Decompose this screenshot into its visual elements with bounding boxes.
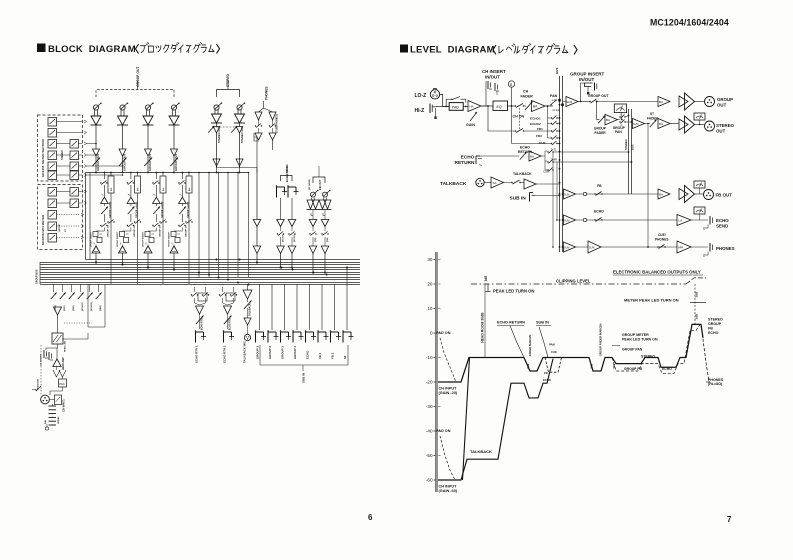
- svg-text:ECHO RTN: ECHO RTN: [230, 318, 232, 330]
- echo return 2 pick switches: [222, 287, 224, 292]
- svg-text:MC2404 METER SECTION: MC2404 METER SECTION: [41, 139, 45, 177]
- echo send jack: [276, 187, 278, 198]
- group meter: [614, 104, 626, 113]
- svg-text:GROUP: GROUP: [717, 97, 733, 102]
- svg-text:TALKBACK: TALKBACK: [440, 181, 467, 187]
- svg-text:SEND: SEND: [716, 224, 728, 229]
- svg-text:ECHO2: ECHO2: [530, 122, 541, 126]
- svg-text:CUE: CUE: [551, 350, 557, 354]
- svg-text:GROUP INSERT: GROUP INSERT: [169, 231, 171, 247]
- meter box1 col1 row6 meter cell: [48, 171, 57, 180]
- svg-text:SUB IN: SUB IN: [536, 321, 549, 325]
- pad bypass switch: [446, 99, 451, 106]
- phones dashed drop: [701, 324, 709, 382]
- svg-text:FB: FB: [708, 327, 713, 331]
- fb post amp + power amp: [658, 189, 670, 199]
- svg-text:ELECTRONIC BALANCED OUTPUTS ON: ELECTRONIC BALANCED OUTPUTS ONLY: [613, 270, 701, 275]
- talkback post amp: [524, 179, 536, 189]
- group 4 wire to bus: [173, 245, 175, 247]
- fb out balanced amp: [323, 198, 325, 201]
- svg-text:UNBAL: UNBAL: [57, 416, 60, 424]
- channel pad switches: [53, 370, 60, 377]
- stereo bus pair: [628, 109, 630, 194]
- group out XLR: [695, 101, 705, 103]
- svg-text:BA: BA: [659, 100, 663, 104]
- ch on gang dashed link: [519, 108, 521, 129]
- svg-text:PAD: PAD: [59, 382, 64, 386]
- svg-text:PHONES: PHONES: [716, 246, 735, 251]
- svg-text:R: R: [621, 125, 623, 128]
- svg-text:-20: -20: [426, 380, 433, 385]
- fb meter: [694, 181, 705, 188]
- fb wire to bus: [324, 254, 326, 273]
- head amp HA: [468, 101, 481, 112]
- group 3 insert jacks cluster: [155, 228, 157, 232]
- pre-EQ tap to FB1 row: [488, 106, 516, 131]
- ch on switch: [515, 105, 516, 106]
- talkback amp: [485, 182, 492, 184]
- svg-text:-10: -10: [426, 355, 433, 360]
- svg-text:L: L: [621, 114, 623, 117]
- echo return 2 sum amp: [223, 298, 228, 305]
- svg-text:SUM: SUM: [567, 101, 573, 104]
- phones headphone amp: [677, 241, 691, 253]
- fb sum amps: [564, 189, 576, 199]
- MC2404 meter section dashed box: [38, 115, 83, 181]
- svg-text:HA: HA: [470, 105, 474, 109]
- group 4 on/off switch + insert box: [178, 182, 179, 183]
- echo send buffer amp: [280, 198, 282, 220]
- group power amp: [658, 97, 670, 107]
- svg-text:(FB2): (FB2): [73, 305, 75, 311]
- svg-text:STEREO: STEREO: [641, 354, 655, 358]
- channel head block wire: [57, 315, 59, 333]
- echo line amp: [677, 215, 691, 226]
- group 1 direct feed to bus: [110, 193, 112, 284]
- chart axis ticks and labels: [434, 259, 436, 261]
- echo send jack: [691, 219, 708, 221]
- channel input attenuator box: [55, 395, 62, 405]
- svg-text:GROUP OUT: GROUP OUT: [174, 153, 178, 171]
- echo send wire to bus: [280, 254, 282, 268]
- meter link line: [57, 143, 71, 145]
- talkback mic connector: [247, 325, 249, 334]
- eq block: [493, 101, 508, 111]
- svg-text:METER PEAK LED TURN ON: METER PEAK LED TURN ON: [624, 298, 679, 303]
- input wires to pad junction: [440, 94, 450, 106]
- svg-text:GAIN: GAIN: [466, 123, 475, 127]
- svg-text:10: 10: [427, 306, 433, 311]
- group out 1 master fader: [92, 158, 100, 167]
- echo row wire: [576, 219, 678, 221]
- ch insert jacks: [487, 81, 489, 89]
- group insert jacks: [585, 83, 593, 87]
- svg-text:3dB: 3dB: [484, 275, 488, 282]
- group 3 pickoff verticals: [156, 172, 158, 174]
- fb out bracket: [313, 177, 325, 183]
- clipping level dashed line: [471, 283, 686, 285]
- svg-text:3dB: 3dB: [590, 364, 594, 369]
- svg-text:GROUP (+4dB): GROUP (+4dB): [135, 201, 138, 218]
- meter link line: [57, 165, 71, 167]
- svg-text:BA: BA: [659, 193, 663, 197]
- stereo out top bracket: [217, 90, 240, 98]
- group 1 pickoff verticals: [104, 172, 106, 174]
- post-fader vertical tap: [547, 106, 549, 138]
- output jack columns: [259, 284, 261, 330]
- group out 4 master fader: [170, 158, 178, 167]
- peak led marker: [487, 284, 489, 291]
- group mix line (horizontal): [86, 172, 249, 174]
- stereo out L fader: [216, 123, 218, 127]
- cue trunk verticals: [552, 152, 554, 247]
- svg-text:IN/OUT: IN/OUT: [579, 77, 595, 82]
- echo send output amp: [291, 237, 293, 246]
- svg-text:GROUP OUT: GROUP OUT: [123, 153, 127, 171]
- svg-text:ECHO: ECHO: [461, 155, 475, 161]
- svg-text:CH INPUT: CH INPUT: [439, 485, 458, 489]
- svg-text:(GAIN -20): (GAIN -20): [439, 391, 458, 395]
- svg-text:-60: -60: [426, 478, 433, 483]
- group 3 on/off switch + insert box: [152, 182, 153, 183]
- svg-text:BA: BA: [659, 122, 663, 126]
- phantom +48v node: [45, 427, 48, 430]
- echo return 2 fader: [224, 316, 232, 325]
- left feed line down to bus: [85, 173, 87, 260]
- svg-text:STEREO: STEREO: [61, 150, 64, 160]
- svg-text:GROUP OUT: GROUP OUT: [136, 66, 140, 87]
- svg-text:SUM: SUM: [589, 247, 594, 250]
- group out 2 wire to buffer: [122, 125, 124, 149]
- svg-text:FB 2: FB 2: [331, 352, 335, 359]
- group out 2 master fader: [119, 158, 127, 167]
- group out 4 level pot: [171, 105, 176, 110]
- phones sum amps: [564, 242, 576, 252]
- svg-text:EQ: EQ: [497, 105, 502, 109]
- svg-text:SUB IN: SUB IN: [302, 373, 306, 383]
- group 3 wire to bus: [147, 245, 149, 247]
- stereo out R level pot: [237, 105, 242, 110]
- fb out output amp: [324, 237, 326, 246]
- svg-text:PAD: PAD: [452, 105, 459, 109]
- svg-text:INS: INS: [111, 187, 113, 191]
- svg-text:SUB IN: SUB IN: [510, 195, 527, 201]
- svg-text:PAN: PAN: [549, 343, 555, 347]
- svg-text:GROUP ON: GROUP ON: [134, 225, 136, 237]
- stereo sum amp: [633, 119, 645, 129]
- svg-text:PHONES: PHONES: [265, 87, 269, 100]
- fb out level pot: [323, 192, 328, 197]
- group 2 fader: [130, 204, 132, 207]
- svg-text:STEREO OUT: STEREO OUT: [240, 126, 244, 143]
- svg-text:GROUP INSERT: GROUP INSERT: [91, 231, 93, 247]
- svg-text:STEREO OUT: STEREO OUT: [217, 126, 221, 143]
- right title katakana (level diagram): [493, 45, 496, 55]
- svg-text:GROUP 1: GROUP 1: [256, 346, 260, 359]
- svg-text:IN/OUT: IN/OUT: [485, 75, 500, 80]
- aux bus vertical wires: [198, 173, 200, 278]
- stereo power amp: [670, 123, 679, 125]
- phones amp: [269, 112, 276, 120]
- meter box1 col2 row1 meter cell: [70, 140, 79, 149]
- ch post amp BA: [532, 101, 546, 112]
- group 2 on switch lower: [127, 225, 128, 226]
- svg-text:-50: -50: [426, 453, 433, 458]
- echo sum amp: [564, 215, 576, 225]
- group 3 summing amp (up): [153, 197, 161, 203]
- svg-text:STEREO: STEREO: [624, 139, 628, 150]
- group out 3 wire to mix line: [147, 156, 149, 173]
- svg-text:PHANTOM: PHANTOM: [37, 379, 40, 390]
- group 2 summing amp (up): [127, 197, 135, 203]
- svg-text:HPA: HPA: [678, 246, 683, 250]
- group out 4 wire to buffer: [173, 125, 175, 149]
- channel input XLR: [41, 395, 50, 404]
- svg-text:INS: INS: [189, 187, 191, 191]
- stereo out L level pot: [214, 105, 219, 110]
- group out 4 balanced amp: [172, 110, 174, 116]
- svg-text:PAD ON: PAD ON: [436, 429, 451, 433]
- svg-text:B: B: [510, 83, 513, 87]
- group out 3 buffer amp: [145, 149, 152, 156]
- echo send switch: [291, 227, 293, 232]
- post-EQ trunk from B: [511, 87, 513, 143]
- svg-text:LO-Z: LO-Z: [415, 93, 427, 99]
- svg-text:BA: BA: [606, 118, 610, 122]
- group pan switches: [618, 119, 621, 121]
- stereo out R balanced amp: [237, 110, 239, 114]
- secondary dashed trace (group/echo variants): [612, 331, 696, 374]
- fb1 ganged switch: [515, 130, 516, 131]
- channel head amp block: [52, 333, 63, 344]
- svg-text:PAN: PAN: [615, 130, 622, 134]
- svg-text:FADER: FADER: [521, 95, 534, 99]
- phones row wire: [601, 246, 677, 248]
- svg-text:(CUE/PHONES): (CUE/PHONES): [275, 114, 279, 133]
- svg-text:OUT: OUT: [716, 129, 726, 134]
- svg-text:(ECHO1): (ECHO1): [82, 302, 84, 311]
- echo send switch: [280, 227, 282, 232]
- phones split wire: [259, 101, 264, 112]
- svg-text:FB1: FB1: [537, 127, 543, 131]
- clipping level rise at right: [686, 278, 706, 284]
- fb out switch: [324, 227, 326, 232]
- svg-text:(FB): (FB): [315, 237, 317, 242]
- svg-text:0: 0: [430, 331, 433, 336]
- svg-text:SUM: SUM: [633, 123, 638, 126]
- group 3 output amp (up): [144, 246, 152, 253]
- svg-text:ST: ST: [65, 229, 67, 232]
- svg-text:OUT: OUT: [717, 103, 727, 108]
- fb out buffer: [323, 213, 325, 216]
- echo send wire to bus: [291, 254, 293, 268]
- fb out XLR: [695, 193, 704, 195]
- svg-text:BA: BA: [533, 105, 538, 109]
- stereo out L balanced amp: [214, 110, 216, 114]
- phones output amp: [269, 133, 276, 140]
- svg-text:GROUP INSERT: GROUP INSERT: [117, 231, 119, 247]
- svg-text:TALKBACK MIC: TALKBACK MIC: [243, 340, 247, 363]
- svg-text:GROUP ON: GROUP ON: [185, 225, 187, 237]
- echo return 1 fader: [196, 316, 204, 325]
- bus left end connectors: [39, 262, 41, 284]
- phantom dashed feed: [40, 345, 42, 395]
- fb echo dashed dip: [545, 358, 562, 373]
- group 2 direct feed to bus: [137, 193, 139, 284]
- stereo L buffer above mix line: [213, 159, 220, 166]
- group out 3 master fader: [144, 158, 152, 167]
- left title katakana (block diagram): [136, 44, 139, 54]
- meter box1 col1 row1 meter cell: [48, 118, 57, 127]
- svg-text:ECHO RTN: ECHO RTN: [202, 318, 204, 330]
- stereo out R fader: [239, 123, 241, 127]
- svg-text:GROUP 4: GROUP 4: [293, 346, 297, 359]
- main channel trace: [438, 324, 703, 382]
- echo send output amp: [280, 237, 282, 246]
- svg-text:GROUP INSERT: GROUP INSERT: [570, 72, 605, 77]
- st post amp: [658, 119, 670, 129]
- group 4 fader: [181, 204, 183, 207]
- channel gain gang dotted: [64, 322, 92, 324]
- svg-text:-30: -30: [426, 404, 433, 409]
- svg-text:FB: FB: [597, 184, 602, 188]
- svg-text:LEVEL DIAGRAM: LEVEL DIAGRAM: [410, 45, 495, 56]
- group 1 output amp (up): [92, 246, 100, 253]
- phones lower buffer 2: [256, 227, 258, 247]
- group out 3 wire to buffer: [147, 125, 149, 149]
- group 2 on/off switch + insert box: [127, 182, 128, 183]
- pad block: [449, 103, 463, 111]
- svg-text:PEAK LED TURN ON: PEAK LED TURN ON: [493, 288, 534, 293]
- svg-text:GROUP METER: GROUP METER: [622, 333, 649, 337]
- svg-text:7: 7: [727, 515, 732, 524]
- group 3 on switch lower: [152, 225, 153, 226]
- phones feed down to lower amp: [256, 173, 258, 220]
- svg-text:BAL: BAL: [44, 419, 47, 424]
- group 1 on/off switch + insert box: [100, 182, 101, 183]
- svg-text:ECHO: ECHO: [306, 350, 310, 359]
- svg-text:CUE: CUE: [539, 141, 546, 145]
- meter box1 col2 row3 meter cell: [70, 162, 79, 171]
- echo return to stereo bus lines: [553, 151, 629, 153]
- svg-text:GROUP (+4dB): GROUP (+4dB): [161, 201, 164, 218]
- meter box1 col2 row4 meter cell: [70, 171, 79, 180]
- svg-text:2-4R: 2-4R: [551, 158, 557, 162]
- talkback fader: [244, 301, 252, 310]
- stereo link line: [217, 167, 258, 169]
- channel pad box: [59, 379, 67, 387]
- svg-text:GROUP ON: GROUP ON: [159, 225, 161, 237]
- channel terminal strip: [49, 405, 53, 407]
- echo return 2 jack: [227, 314, 229, 329]
- svg-text:BLOCK DIAGRAM: BLOCK DIAGRAM: [48, 44, 136, 55]
- group out 1 buffer amp: [93, 149, 100, 156]
- svg-text:GROUP: GROUP: [708, 322, 722, 326]
- svg-text:CLIPPING LEVEL: CLIPPING LEVEL: [556, 279, 591, 284]
- svg-text:GROUP BUS: GROUP BUS: [36, 269, 39, 284]
- group out 2 balanced amp: [120, 110, 122, 116]
- svg-text:PEAK LED TURN ON: PEAK LED TURN ON: [622, 337, 658, 341]
- bus dots: [559, 99, 561, 101]
- bus junction dots: [95, 262, 97, 264]
- svg-text:(CH INPUT): (CH INPUT): [64, 399, 66, 412]
- svg-text:GROUP FADER MARGIN: GROUP FADER MARGIN: [599, 324, 603, 357]
- svg-text:ECHO RTN 2: ECHO RTN 2: [223, 345, 227, 363]
- talkback amp: [247, 284, 249, 290]
- svg-text:GROUP 3: GROUP 3: [281, 346, 285, 359]
- meter box2 col1 row4 meter cell: [48, 222, 57, 231]
- group 1 fader: [103, 204, 105, 207]
- svg-text:ECHO: ECHO: [716, 218, 729, 223]
- svg-text:(ECHO2): (ECHO2): [91, 302, 93, 311]
- svg-text:BUS: BUS: [555, 68, 559, 74]
- phones cue switch: [269, 125, 270, 126]
- monitor pickoff B: [508, 81, 514, 87]
- group fader branch: [597, 102, 600, 120]
- meter box2 col2 row2 meter cell: [70, 199, 79, 208]
- svg-text:ST: ST: [343, 355, 347, 359]
- bus right-end drop wire: [346, 268, 348, 285]
- group out 1 balanced amp: [94, 110, 96, 116]
- svg-text:PEAK LED: PEAK LED: [64, 341, 67, 352]
- svg-text:(RL=8Ω): (RL=8Ω): [708, 382, 723, 386]
- echo return wire: [480, 155, 519, 157]
- svg-text:ECHO: ECHO: [708, 331, 719, 335]
- group 3 fader: [155, 204, 157, 207]
- svg-text:INS: INS: [137, 187, 139, 191]
- svg-text:GROUP PAN: GROUP PAN: [622, 348, 643, 352]
- meter box1 col1 row2 meter cell: [48, 129, 57, 138]
- phones loop wire: [254, 133, 259, 141]
- svg-text:CUE/: CUE/: [658, 233, 666, 237]
- svg-text:HEAD ROOM 30dB: HEAD ROOM 30dB: [481, 312, 485, 343]
- meter box1 col1 row3 meter cell: [48, 140, 57, 149]
- phones jack: [691, 246, 708, 248]
- meter link line: [57, 174, 71, 176]
- svg-text:HEAD AMP: HEAD AMP: [62, 357, 65, 370]
- post-stereo trunk down to phones: [647, 124, 649, 248]
- phones amp: [255, 112, 262, 120]
- svg-text:CH ON: CH ON: [513, 115, 525, 119]
- svg-text:TALKBACK: TALKBACK: [513, 172, 532, 176]
- svg-text:ECHO: ECHO: [662, 367, 672, 371]
- svg-text:6: 6: [368, 513, 373, 522]
- echo send jack: [287, 187, 289, 198]
- svg-text:30: 30: [427, 257, 433, 262]
- group out 3 balanced amp: [146, 110, 148, 116]
- group 2 pickoff verticals: [130, 172, 132, 174]
- stereo out R wire to ST line: [239, 133, 241, 168]
- MC1604/1204 meter section dashed box: [38, 185, 83, 250]
- meter box1 output lines: [57, 121, 83, 123]
- svg-text:SUM: SUM: [564, 247, 569, 250]
- svg-text:20: 20: [427, 282, 433, 287]
- group 2 wire to bus: [122, 245, 124, 247]
- svg-text:ECHO RETURN: ECHO RETURN: [497, 321, 525, 325]
- svg-text:GROUP ON: GROUP ON: [107, 225, 109, 237]
- svg-text:(PAN): (PAN): [99, 305, 102, 311]
- svg-text:ECHO RTN 1: ECHO RTN 1: [195, 345, 199, 363]
- group out 1 wire to buffer: [95, 125, 97, 149]
- group 4 on switch lower: [178, 225, 179, 226]
- ch fader: [524, 105, 527, 107]
- right section title LEVEL DIAGRAM: [400, 45, 408, 53]
- phantom switch at left: [32, 389, 36, 391]
- group bus pair: [559, 76, 561, 252]
- fb out buffer: [311, 213, 313, 216]
- group 1 wire to bus: [95, 245, 97, 247]
- svg-text:PAN: PAN: [550, 94, 558, 98]
